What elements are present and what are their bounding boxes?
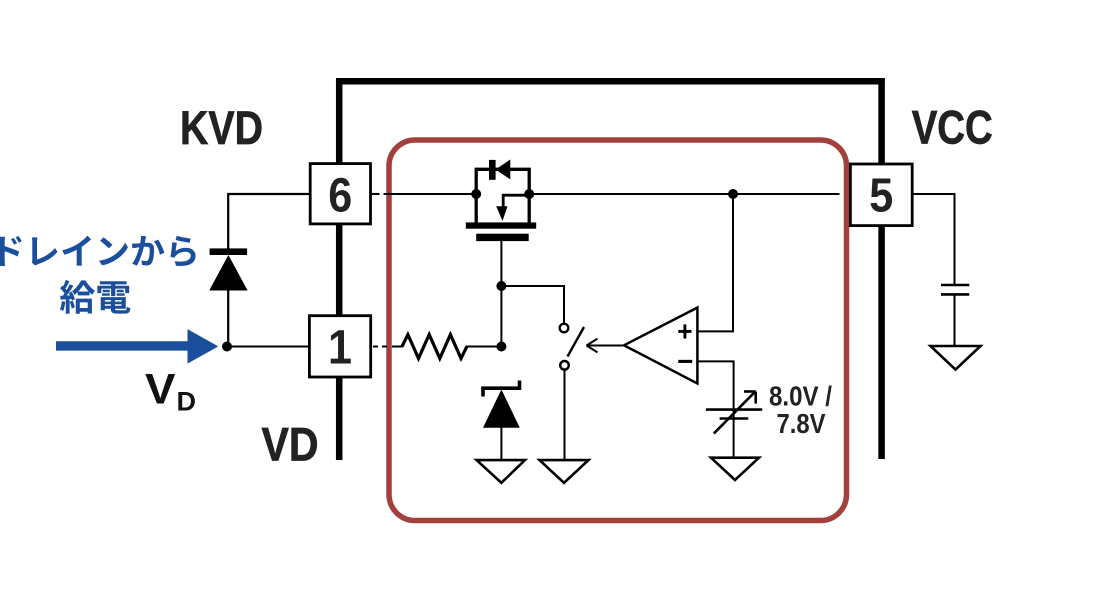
IC outline right edge (VCC bus) (878, 78, 885, 459)
node: Q1 source on rail (471, 189, 481, 199)
pin box 1 (309, 316, 370, 377)
jp ド (0, 236, 22, 266)
svg-text:1: 1 (328, 322, 352, 375)
wire: gate down to node C (500, 241, 502, 347)
jp か (132, 236, 164, 266)
label: drain supply note (Japanese, drawn as paths) (0, 236, 196, 314)
jp 電 (97, 281, 130, 313)
wire: diode to VD node (227, 290, 229, 347)
Q1 substrate arrow (503, 195, 529, 206)
jp ら (170, 236, 195, 266)
ground (zener) (477, 460, 525, 483)
svg-text:D: D (177, 387, 197, 417)
wire: pin1 dashes (373, 346, 378, 348)
VR1 adjust arrow (714, 392, 755, 434)
wire: U1 minus input down to reference (697, 361, 734, 457)
svg-text:8.0V /: 8.0V / (769, 381, 832, 412)
svg-text:5: 5 (869, 170, 893, 223)
pin box 6 (310, 164, 370, 224)
switch S1 lever (568, 327, 585, 357)
U1 plus input mark (678, 330, 691, 333)
wire: pin6 dash to internal (372, 193, 380, 195)
resistor R1 (402, 335, 467, 359)
jp イ (62, 236, 91, 266)
wire: red boundary to resistor (392, 346, 403, 348)
svg-text:6: 6 (328, 170, 352, 223)
zener D2 anode triangle (483, 390, 520, 428)
transistor Q1 (P-MOSFET) source/drain stubs and body-diode loop (476, 169, 529, 222)
wire: resistor to node B (466, 346, 501, 348)
IC outline left edge (KVD/VD bus) (336, 78, 343, 460)
diode D1 cathode bar (210, 248, 248, 255)
blue supply arrow (56, 329, 218, 364)
jp ン (99, 237, 128, 265)
node: Q1 drain on rail (524, 189, 534, 199)
jp レ (32, 237, 58, 265)
svg-text:VCC: VCC (912, 100, 993, 153)
VR1 short bar (720, 417, 749, 420)
op-amp U1 (comparator) (624, 308, 697, 384)
wire: pin6 to diode top (228, 194, 310, 249)
capacitor C1 (941, 284, 969, 287)
wire: node A to pin1 (227, 346, 310, 348)
node B (resistor/zener junction) (496, 342, 506, 352)
wire: zener to ground (500, 427, 502, 460)
switch S1 top contact (560, 324, 569, 333)
ground (switch) (540, 460, 589, 483)
jp 給 (60, 280, 95, 314)
comparator drive arrow (588, 345, 624, 347)
ground (capacitor) (931, 346, 981, 370)
switch S1 bottom contact (560, 361, 569, 370)
svg-text:V: V (145, 366, 176, 414)
pin box 5 (850, 164, 912, 226)
node A (VD junction) (222, 342, 232, 352)
wire: capacitor to ground (954, 295, 956, 346)
internal block boundary (red rounded box) (389, 140, 847, 521)
svg-text:7.8V: 7.8V (777, 408, 826, 439)
wire: switch to ground (564, 370, 566, 460)
wire: U1 plus input to rail node (697, 194, 733, 331)
svg-text:VD: VD (262, 417, 319, 470)
Q1 body diode triangle (495, 160, 510, 180)
wire: pin5 to capacitor (912, 194, 955, 284)
diode D1 anode triangle (209, 255, 247, 291)
Q1 gate bar (476, 234, 529, 241)
variable reference VR1 long bar (706, 408, 762, 411)
ground (reference) (711, 458, 759, 480)
Q1 body diode cathode bar (489, 160, 496, 180)
U1 minus input mark (678, 360, 692, 363)
svg-text:KVD: KVD (180, 101, 263, 154)
Q1 channel bar (466, 222, 536, 228)
zener D2 cathode bar (483, 381, 520, 397)
node D (rail to comparator) (728, 189, 738, 199)
IC outline top edge (336, 78, 885, 85)
node C (gate node) (496, 281, 506, 291)
wire: main rail pin6 to pin5 at y=194 (384, 193, 477, 195)
wire: node C to switch (501, 286, 564, 323)
